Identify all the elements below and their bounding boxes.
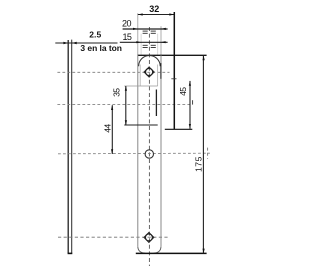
centerline hole2 horizontal — [58, 152, 210, 155]
dimension 35 top arrow — [125, 86, 127, 91]
plate bottom left corner arc — [138, 246, 145, 253]
svg-text:45: 45 — [178, 87, 188, 96]
tongue left edge — [139, 65, 141, 87]
dimension 44 line — [111, 105, 113, 154]
centerline vertical strap axis — [148, 27, 150, 266]
centerline cross tick near 175 line — [207, 148, 209, 159]
dimension 44 top arrow — [111, 105, 113, 110]
dimension 20 right arrow — [161, 28, 166, 30]
tick on bolt axis end — [192, 100, 194, 104]
extension line left (15) — [140, 34, 142, 56]
extension line right (15) — [157, 34, 159, 56]
plate right edge — [160, 55, 162, 246]
dimension 32 right arrow — [169, 13, 174, 15]
equality marks under 15 — [143, 45, 156, 47]
plate bottom edge with extension to 175 dim — [136, 252, 207, 254]
equality marks under 20 — [143, 31, 156, 33]
frame vertical edge — [173, 12, 175, 129]
tongue right edge — [157, 65, 159, 87]
dimension 2.5 left arrow — [63, 42, 68, 44]
svg-text:2.5: 2.5 — [89, 30, 101, 40]
extension line left (32/20) — [137, 13, 139, 55]
dimension 20 line — [123, 28, 168, 30]
hole2 circle — [145, 150, 153, 158]
extension line right (20) — [160, 26, 162, 55]
side view plate left face — [67, 40, 69, 253]
frame horizontal edge — [165, 128, 193, 130]
dimension 45 bottom arrow — [189, 124, 191, 129]
dimension 15 right arrow — [161, 41, 166, 43]
tongue dome arc — [139, 56, 161, 67]
svg-text:3 en la ton: 3 en la ton — [80, 43, 122, 53]
centerline hole3 horizontal — [58, 236, 169, 238]
svg-text:175: 175 — [193, 156, 203, 172]
hole3 diamond — [144, 232, 154, 242]
bolt end edge — [155, 90, 157, 117]
dimension 15 line — [120, 41, 168, 43]
hole1 diamond — [144, 67, 154, 77]
dimension 2.5 line — [55, 42, 117, 44]
tick for 45 top extension — [171, 78, 176, 80]
centerline hole1 horizontal — [57, 71, 169, 73]
dimension 20 left arrow — [133, 28, 138, 30]
plate left edge — [137, 55, 139, 246]
side view plate right face — [71, 40, 73, 254]
plate top edge with extension to 175 dim — [138, 54, 207, 56]
hole3 circle — [145, 234, 152, 241]
dimension 175 bottom arrow — [203, 249, 205, 254]
dimension 32 left arrow — [138, 13, 143, 15]
plate right edge dark segment (head) — [160, 63, 162, 79]
svg-text:15: 15 — [122, 32, 132, 42]
dimension 2.5 right arrow — [72, 42, 77, 44]
hole1 circle — [146, 68, 153, 75]
svg-text:44: 44 — [102, 124, 112, 133]
tongue bottom line with extension to 35 dim — [124, 85, 157, 87]
dimension 32 line — [138, 14, 174, 16]
dimension 44 bottom arrow — [111, 149, 113, 154]
dimension 175 top arrow — [203, 55, 205, 60]
dimension 15 left arrow — [136, 41, 141, 43]
svg-text:35: 35 — [112, 88, 122, 97]
svg-text:32: 32 — [149, 4, 159, 14]
plate bottom right corner arc — [154, 246, 161, 253]
side view plate bottom cap — [68, 252, 73, 254]
svg-text:20: 20 — [122, 19, 132, 29]
centerline bolt axis horizontal — [57, 103, 190, 105]
dimension 35 bottom arrow — [125, 120, 127, 125]
dimension 45 top arrow — [189, 81, 191, 86]
step line with extension to 35 dim — [124, 124, 157, 126]
dimension 45 line — [189, 81, 191, 129]
dimension 175 line — [202, 55, 204, 253]
dimension 35 line — [125, 86, 127, 125]
